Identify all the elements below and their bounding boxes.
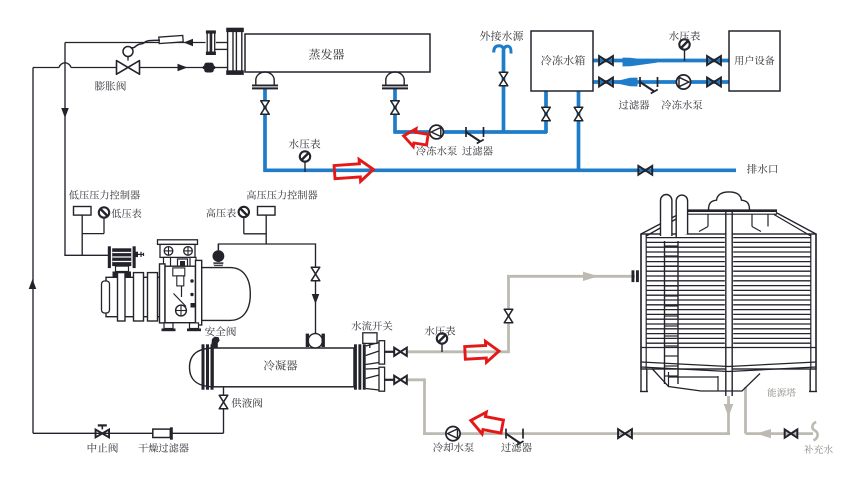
label 水压表 drain [289, 139, 321, 149]
wire suction line drop x65 [64, 43, 66, 256]
arrow discharge flow down [312, 294, 320, 304]
pump 冷却水泵 [446, 427, 460, 441]
arrow liquid flow up [29, 279, 37, 289]
valve 安全阀 symbol [212, 337, 220, 349]
label 冷冻水泵 tank loop [662, 100, 703, 110]
wire user to tank return pipe [592, 80, 730, 84]
wire condenser bottom elbow [406, 380, 425, 433]
valve tank supply out [599, 56, 613, 65]
arrow blue supply to user [623, 58, 658, 67]
label 能源塔 [768, 388, 796, 397]
compressor unit [158, 240, 198, 245]
gauge 低压表 [103, 218, 105, 234]
arrow red cooling return [469, 410, 505, 438]
node liquid port on evaporator [204, 63, 214, 73]
wire external water source drop [502, 50, 506, 133]
wire tank outlet 1 drop [544, 90, 548, 133]
box 低压压力控制器 [74, 207, 92, 216]
wire chilled-water drain header y170 [264, 168, 736, 172]
arrow blue return from user [616, 78, 638, 87]
valve condenser water out [394, 348, 407, 356]
arrow gray tower outlet down [724, 404, 734, 417]
flange condenser left [202, 344, 205, 389]
arrow gray into tower [583, 272, 599, 281]
label 冷冻水箱 [541, 55, 585, 65]
valve on tank outlet 1 [542, 107, 551, 121]
bonnet condenser outlet bottom [366, 369, 379, 391]
label 水流开关 [351, 321, 392, 331]
valve on makeup water [785, 430, 798, 438]
strainer 过滤器 (cooling) [505, 429, 507, 439]
valve on tank outlet 2 [574, 107, 583, 121]
arrow suction flow down [61, 108, 69, 118]
label 过滤器 cooling [501, 442, 532, 452]
wire discharge line [218, 244, 315, 334]
arrow gray makeup water [756, 429, 771, 438]
wire LP controller stem [81, 215, 83, 255]
wire liquid line bottom run [33, 432, 224, 434]
wire tower outlet drop [727, 395, 730, 434]
arrow liquid flow right [178, 64, 188, 72]
flange tower inlet [632, 270, 635, 282]
label 过滤器 pump [462, 146, 493, 156]
vessel 冷凝器 shell [213, 348, 354, 387]
valve on cooling return [618, 429, 632, 438]
label 膨胀阀 [95, 81, 126, 91]
label 高压表 [206, 208, 236, 218]
valve 膨胀阀 body [117, 61, 140, 75]
valve on right nozzle drop [391, 101, 400, 115]
arrow red drain header [334, 158, 374, 183]
wire evaporator left nozzle drop [263, 88, 267, 172]
box 用户设备 [729, 31, 780, 91]
wire tank to user supply pipe [592, 59, 730, 63]
label 排水口 [747, 164, 777, 174]
flange suction pipe [207, 33, 210, 53]
valve condenser water in [394, 376, 407, 384]
vessel 冷凝器 left cap [190, 348, 214, 387]
wire HP controller stem [265, 215, 267, 244]
pump 冷冻水泵 (tank loop) [676, 75, 690, 89]
label 水压表 top [669, 31, 700, 41]
label 冷却水泵 [433, 442, 474, 452]
wire liquid riser to condenser [223, 387, 225, 434]
gauge 高压表 [243, 217, 245, 234]
wire evaporator right nozzle drop [393, 88, 397, 133]
strainer 过滤器 (evaporator loop) [465, 127, 467, 137]
arrow red chilled pump suction [402, 127, 429, 149]
wire condenser top water stub [385, 351, 395, 353]
label 低压表 [111, 209, 141, 219]
label 过滤器 tank loop [619, 100, 650, 110]
label 补充水 [804, 445, 833, 454]
cooling tower 能源塔 [641, 234, 816, 369]
label 低压压力控制器 [69, 190, 140, 199]
label 水压表 cooling [425, 326, 456, 336]
valve on tower riser [504, 309, 513, 323]
gauge 水压表 cooling [441, 343, 443, 352]
wire tank outlet 2 drop [577, 90, 581, 171]
label 外接水源 [480, 31, 523, 41]
valve on left nozzle drop [261, 101, 270, 115]
wire makeup water line [746, 387, 814, 434]
label 蒸发器 [309, 49, 344, 60]
box 高压压力控制器 [258, 207, 276, 216]
filter 干燥过滤器 [153, 429, 171, 437]
label 冷冻水泵 pump [416, 146, 457, 156]
wire condenser to tower top run [407, 276, 635, 352]
wire pump suction header y132 [394, 130, 548, 134]
valve user supply in [707, 56, 721, 65]
nozzle evaporator right [386, 72, 404, 85]
arrow red tower supply [464, 341, 499, 364]
vessel 蒸发器 shell [245, 34, 430, 72]
wire condenser bottom water stub [385, 379, 395, 381]
label 干燥过滤器 [138, 443, 188, 452]
valve 中止阀 [96, 430, 110, 438]
flange evaporator head [228, 30, 233, 73]
label 冷凝器 [264, 360, 297, 371]
valve 供液阀 [219, 395, 228, 409]
wire capillary to bulb [131, 40, 161, 48]
strainer 过滤器 (tank loop) [639, 77, 641, 87]
tank 冷冻水箱 [531, 31, 593, 91]
gauge 水压表 on drain header [304, 157, 306, 172]
valve on external water source [499, 72, 508, 86]
bonnet condenser outlet top [366, 343, 379, 365]
switch 水流开关 [363, 333, 377, 344]
inlet dome on condenser top [315, 332, 317, 336]
label 中止阀 [88, 443, 118, 453]
valve 膨胀阀 head [127, 57, 129, 61]
valve on discharge drop [311, 267, 320, 281]
nozzle evaporator left [256, 72, 274, 85]
wire liquid line drop x33 [32, 68, 34, 434]
valve on drain header [638, 166, 652, 175]
gauge 水压表 top [684, 49, 686, 61]
wire suction line top [65, 42, 206, 44]
label 高压压力控制器 [247, 190, 318, 200]
wire cooling return header [423, 432, 730, 435]
valve user return out [707, 78, 721, 87]
pump 冷冻水泵 (evaporator loop) [430, 125, 444, 139]
node external water source hook [494, 46, 511, 54]
arrow suction flow left [184, 39, 194, 47]
label 安全阀 [205, 326, 236, 336]
label 用户设备 [734, 56, 774, 65]
label 供液阀 [231, 398, 262, 408]
wire liquid line to expansion valve [33, 63, 204, 68]
node makeup water squiggle [812, 422, 817, 441]
node sensor bulb on suction line [159, 35, 183, 43]
flange condenser right [354, 344, 357, 389]
wire suction line to compressor [64, 254, 109, 256]
valve tank return in [599, 78, 613, 87]
